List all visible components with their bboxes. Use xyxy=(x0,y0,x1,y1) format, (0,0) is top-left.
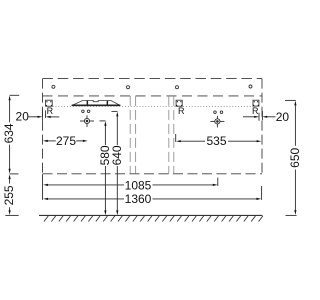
inner top rail line (dashed) xyxy=(43,95,263,97)
fixing holes pair left xyxy=(82,110,90,113)
svg-text:275: 275 xyxy=(56,134,76,148)
svg-text:R: R xyxy=(47,106,54,116)
svg-text:20: 20 xyxy=(16,110,30,124)
dimension 1360 xyxy=(43,186,261,200)
dimension 634 xyxy=(9,95,20,173)
cabinet left edge (dashed) xyxy=(42,79,44,174)
divider dashed vertical right pair xyxy=(169,96,174,174)
dimension 20 right xyxy=(243,111,276,121)
dimension 640 xyxy=(112,111,119,215)
fixing holes pair right xyxy=(214,111,223,114)
dimension 535 xyxy=(176,134,262,142)
svg-text:255: 255 xyxy=(2,185,16,205)
dimension 1085 xyxy=(43,178,218,186)
svg-text:1360: 1360 xyxy=(125,192,152,206)
dimension 255 xyxy=(5,174,18,216)
divider dashed vertical left pair xyxy=(130,96,135,174)
svg-text:1085: 1085 xyxy=(125,178,152,192)
svg-text:20: 20 xyxy=(276,110,290,124)
mounting rail xyxy=(72,100,121,105)
drill hole top 4 xyxy=(249,85,252,88)
dimension 20 left xyxy=(29,110,60,121)
drill hole top 3 xyxy=(176,86,179,89)
screw dotted reference line xyxy=(53,105,254,107)
svg-text:R: R xyxy=(252,106,259,116)
bracket R2 xyxy=(176,100,182,106)
dimension 275 xyxy=(43,140,88,142)
water supply symbol left xyxy=(80,115,94,127)
ground hatching xyxy=(44,216,263,222)
left edge extension line xyxy=(42,174,44,200)
bracket R3 xyxy=(253,100,259,106)
svg-text:650: 650 xyxy=(288,147,300,167)
bracket R1 xyxy=(46,100,53,106)
cabinet right edge (dashed) xyxy=(261,79,263,174)
drill hole top 1 xyxy=(52,85,55,88)
ground line xyxy=(39,214,262,216)
svg-text:535: 535 xyxy=(206,134,226,148)
dimension 580 xyxy=(100,121,107,215)
cabinet top edge (dashed) xyxy=(43,78,263,80)
water supply symbol right xyxy=(210,116,224,128)
dimension 650 xyxy=(285,100,297,215)
drill hole top 2 xyxy=(127,86,130,89)
svg-text:634: 634 xyxy=(2,123,16,143)
cabinet bottom edge (dashed) xyxy=(43,173,263,175)
svg-text:640: 640 xyxy=(110,145,124,165)
svg-text:R: R xyxy=(178,106,185,116)
